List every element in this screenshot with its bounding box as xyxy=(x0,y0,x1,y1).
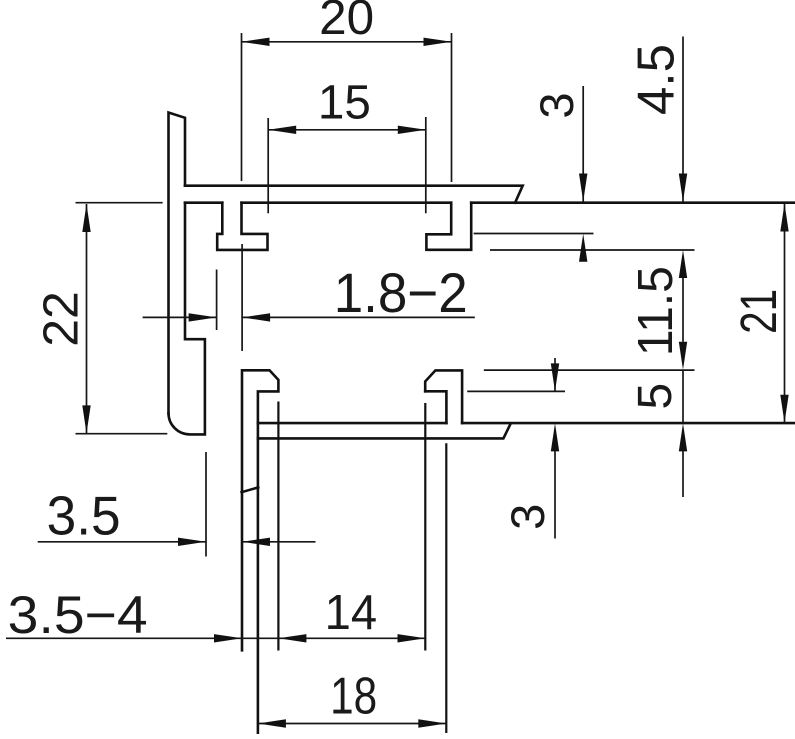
extension line dim 3 bottom xyxy=(467,390,565,392)
arrow 3 top pointing down xyxy=(579,174,587,202)
arrow 18 left pointing left xyxy=(258,719,286,727)
svg-text:5: 5 xyxy=(629,383,682,410)
dimension line 5 between lines xyxy=(682,370,684,423)
arrow 20 right xyxy=(424,38,452,46)
arrow 3 top lower pointing up xyxy=(579,234,587,262)
dimension line 3.5-4 and 14 xyxy=(6,637,426,639)
dimension line 4.5 xyxy=(682,37,684,202)
arrow 22 top xyxy=(82,204,90,232)
flange bottom segment right merging into 21 extension xyxy=(471,201,795,204)
dimension line 3 top xyxy=(582,86,584,202)
svg-text:3.5: 3.5 xyxy=(47,485,121,547)
extension line dim 3 top right xyxy=(474,233,594,235)
svg-text:21: 21 xyxy=(730,289,787,334)
flange bottom segment middle xyxy=(242,201,452,204)
arrow 1.8-2 left xyxy=(189,313,217,321)
svg-text:14: 14 xyxy=(325,586,378,640)
shared arrow at 250 pointing up xyxy=(679,250,687,278)
fin lower right edge, step, bottom with round corner xyxy=(169,203,205,435)
bottom profile right hook xyxy=(425,370,462,423)
dimension line 20 xyxy=(242,41,452,43)
arrow 3.5-4 pointing right xyxy=(214,634,242,642)
arrow 14 right pointing right xyxy=(398,634,426,642)
extension line dim 22 top xyxy=(76,202,163,204)
arrow 21 top pointing up xyxy=(780,204,788,232)
dimension line 3 bottom stub xyxy=(554,451,556,539)
svg-text:3: 3 xyxy=(530,93,583,119)
arrow 3.5 pointing right xyxy=(178,538,206,546)
flange top edge with right chamfer xyxy=(185,186,523,203)
extension line dim 15 right xyxy=(425,117,427,213)
diagonal step tick on bottom left column xyxy=(242,487,259,492)
dimension line 11.5 xyxy=(682,278,684,342)
extension line dim 1.8-2 left xyxy=(216,270,218,331)
extension line dim 20 right xyxy=(451,33,453,182)
right T hook of top profile xyxy=(426,203,471,250)
arrow 1.8-2 right xyxy=(242,313,270,321)
svg-text:22: 22 xyxy=(35,291,89,347)
arrow 21 bottom pointing down xyxy=(780,395,788,423)
svg-text:15: 15 xyxy=(318,76,371,129)
arrow 3 bottom pointing down xyxy=(551,363,559,391)
svg-text:20: 20 xyxy=(319,0,374,45)
bottom profile right hook notch xyxy=(425,391,446,423)
svg-text:18: 18 xyxy=(330,668,377,726)
dimension line 3 bottom upper part xyxy=(554,358,556,391)
extension line dim 4.5 bottom xyxy=(490,249,695,251)
flange bottom segment left xyxy=(185,201,222,204)
dimension line 3.5 right part xyxy=(242,541,316,543)
arrow 4.5 pointing down xyxy=(679,174,687,202)
dimension line 18 xyxy=(258,723,446,725)
svg-text:3.5−4: 3.5−4 xyxy=(8,586,148,645)
fin left wall of top profile xyxy=(169,113,186,414)
arrow 22 bottom xyxy=(82,405,90,433)
arrow 5 bottom pointing up xyxy=(679,423,687,451)
dimension line 3.5 left part xyxy=(38,541,206,543)
bottom profile left hook and left column xyxy=(242,370,278,733)
web top line left segment xyxy=(258,422,447,425)
extension line dim 11.5 bottom / 5 top xyxy=(484,369,695,371)
dimension line 15 xyxy=(268,129,426,131)
arrow 3.5 pointing left xyxy=(242,538,270,546)
extension line dim 20 left xyxy=(241,33,243,181)
extension line dim 22 bottom xyxy=(76,433,168,435)
dimension line 21 xyxy=(784,204,786,423)
web top line right segment merging into extension xyxy=(462,422,795,425)
arrow 3 bottom pointing up xyxy=(551,423,559,451)
extension line dim 15 left xyxy=(267,118,269,213)
dimension line 1.8-2 left part xyxy=(143,316,217,318)
extension line dim 3.5 left xyxy=(205,452,207,557)
dimension line 1.8-2 right part xyxy=(242,316,475,318)
extension line dim 1.8-2 right xyxy=(241,244,243,351)
web bottom line with right chamfer xyxy=(258,424,511,439)
arrow 15 left xyxy=(268,126,296,134)
arrow 20 left xyxy=(242,38,270,46)
arrow 15 right xyxy=(398,126,426,134)
arrow 11.5 bottom pointing down xyxy=(679,342,687,370)
dimension line 22 xyxy=(86,204,88,433)
svg-text:1.8−2: 1.8−2 xyxy=(334,261,468,324)
extension below hook right edge for dim 14 left xyxy=(277,402,279,651)
extension below right hook left edge for dim 14 right xyxy=(424,403,426,651)
svg-text:11.5: 11.5 xyxy=(629,266,683,356)
arrow 18 right pointing right xyxy=(418,719,446,727)
svg-text:3: 3 xyxy=(501,504,554,530)
dimension line 5 stub below xyxy=(682,451,684,497)
left T hook of top profile xyxy=(217,203,267,250)
svg-text:4.5: 4.5 xyxy=(628,44,686,115)
arrow 14 left pointing left xyxy=(278,634,306,642)
extension for dim 18 right xyxy=(445,443,447,733)
